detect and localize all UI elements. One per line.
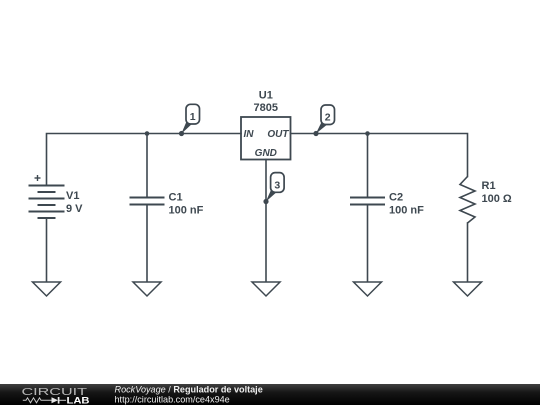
wire U1 GND branch — [265, 160, 267, 282]
CircuitLab logo — [0, 384, 110, 405]
svg-text:100 nF: 100 nF — [389, 205, 424, 217]
svg-text:IN: IN — [244, 129, 255, 140]
svg-text:V1: V1 — [66, 190, 79, 202]
wire C2 branch lower — [367, 205, 369, 282]
node 1 flag — [179, 104, 200, 136]
ground (C1) — [133, 282, 161, 296]
label U1 name — [254, 89, 278, 114]
label V1 value — [66, 190, 83, 215]
battery plus sign — [35, 175, 41, 181]
svg-text:100 Ω: 100 Ω — [482, 193, 512, 205]
svg-text:100 nF: 100 nF — [169, 205, 204, 217]
capacitor C1 — [130, 198, 165, 205]
svg-text:OUT: OUT — [267, 129, 289, 140]
ground (U1 GND) — [252, 282, 280, 296]
wire C1 branch upper — [146, 134, 148, 198]
wire top rail left (battery to U1 IN) — [47, 134, 242, 186]
svg-text:2: 2 — [325, 112, 331, 124]
svg-text:RockVoyage / Regulador de volt: RockVoyage / Regulador de voltaje — [115, 384, 263, 394]
label C1 value — [169, 192, 204, 217]
node 3 flag — [263, 173, 284, 204]
wire R1 to ground — [467, 223, 469, 282]
op-amp box U1 7805 regulator — [241, 117, 291, 160]
capacitor C2 — [350, 198, 385, 205]
battery V1 — [29, 186, 65, 219]
svg-text:1: 1 — [190, 111, 196, 123]
pin label OUT — [267, 129, 289, 140]
svg-text:http://circuitlab.com/ce4x94e: http://circuitlab.com/ce4x94e — [115, 394, 230, 404]
ground (C2) — [354, 282, 382, 296]
junction dot C1/top rail — [145, 131, 150, 136]
svg-text:GND: GND — [255, 148, 277, 159]
svg-text:9 V: 9 V — [66, 203, 83, 215]
junction dot C2/top rail — [365, 131, 370, 136]
label C2 value — [389, 192, 424, 217]
footer credit text — [0, 384, 440, 405]
ground (R1) — [454, 282, 482, 296]
wire battery to ground — [46, 218, 48, 282]
svg-text:7805: 7805 — [254, 102, 278, 114]
ground (battery) — [33, 282, 61, 296]
footer bar — [0, 384, 540, 405]
svg-text:R1: R1 — [482, 180, 496, 192]
svg-text:C1: C1 — [169, 192, 183, 204]
pin label GND — [255, 148, 277, 159]
svg-text:C2: C2 — [389, 192, 403, 204]
node 2 flag — [313, 105, 334, 136]
wire C2 branch upper — [367, 134, 369, 198]
wire top rail right (U1 OUT to R1) — [291, 134, 468, 177]
resistor R1 — [460, 177, 475, 224]
label R1 value — [482, 180, 512, 205]
svg-text:3: 3 — [274, 179, 280, 191]
pin label IN — [244, 129, 255, 140]
wire C1 branch lower — [146, 205, 148, 282]
svg-text:U1: U1 — [259, 89, 273, 101]
